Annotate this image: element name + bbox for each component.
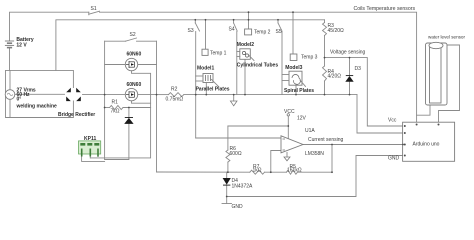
svg-text:60N60: 60N60 [127, 82, 142, 88]
svg-text:D3: D3 [355, 66, 362, 72]
svg-text:Model2: Model2 [237, 42, 254, 48]
svg-text:Model1: Model1 [197, 66, 214, 72]
svg-text:Bridge Rectifier: Bridge Rectifier [58, 112, 95, 118]
svg-text:12 V: 12 V [16, 42, 27, 48]
svg-text:0.75mΩ: 0.75mΩ [166, 97, 184, 103]
svg-text:1kΩ: 1kΩ [253, 168, 262, 174]
svg-text:U1A: U1A [305, 128, 315, 134]
svg-text:12V: 12V [297, 116, 307, 122]
svg-text:Temp 1: Temp 1 [210, 50, 227, 56]
svg-text:S5: S5 [276, 29, 282, 35]
svg-text:Model3: Model3 [285, 65, 302, 71]
svg-text:GND: GND [232, 204, 244, 210]
svg-text:Arduino uno: Arduino uno [413, 142, 440, 148]
svg-text:0°: 0° [17, 97, 22, 103]
svg-text:VCC: VCC [284, 109, 295, 115]
svg-text:Cylindrical Tubes: Cylindrical Tubes [237, 63, 279, 69]
svg-text:S4: S4 [229, 27, 235, 33]
svg-text:Vcc: Vcc [388, 118, 397, 124]
svg-text:Coils Temperature sensors: Coils Temperature sensors [354, 6, 416, 12]
svg-text:R2: R2 [171, 87, 178, 93]
svg-text:Current sensing: Current sensing [308, 137, 344, 143]
svg-text:GND: GND [388, 156, 400, 162]
svg-text:7kΩ: 7kΩ [111, 109, 120, 115]
svg-text:Spiral Plates: Spiral Plates [284, 88, 314, 94]
svg-text:S2: S2 [130, 32, 136, 38]
svg-text:LM358N: LM358N [305, 151, 324, 157]
svg-text:Temp 3: Temp 3 [301, 55, 318, 61]
svg-text:S3: S3 [188, 28, 194, 34]
svg-text:161kΩ: 161kΩ [287, 168, 302, 174]
svg-text:4/20Ω: 4/20Ω [328, 74, 342, 80]
svg-text:water level sensor: water level sensor [428, 35, 465, 40]
svg-text:welding machine: welding machine [16, 104, 58, 110]
svg-text:1N4372A: 1N4372A [232, 184, 254, 190]
svg-text:60N60: 60N60 [127, 52, 142, 58]
svg-text:Voltage sensing: Voltage sensing [330, 50, 366, 56]
svg-text:R1: R1 [112, 100, 119, 106]
svg-text:Temp 2: Temp 2 [254, 30, 271, 36]
svg-text:S1: S1 [91, 6, 97, 12]
svg-text:KP11: KP11 [84, 136, 96, 142]
svg-text:45/20Ω: 45/20Ω [328, 28, 345, 34]
svg-text:600Ω: 600Ω [230, 151, 242, 157]
svg-text:Parallel Plates: Parallel Plates [196, 87, 230, 93]
